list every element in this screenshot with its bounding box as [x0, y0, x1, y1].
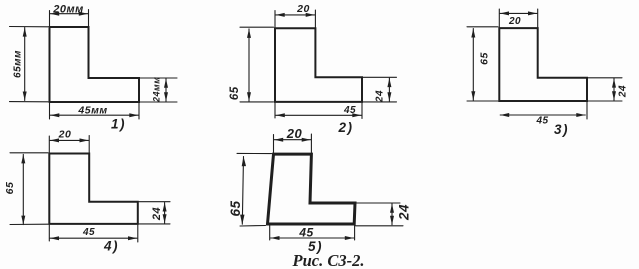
svg-text:24: 24 [375, 90, 386, 103]
svg-text:24: 24 [151, 207, 163, 221]
fig3 dimension 20 extension lines [499, 9, 537, 27]
figure 1 L-shape outline [50, 27, 140, 102]
fig5 label 5) [308, 239, 323, 254]
fig2 dimension 24 line [387, 78, 391, 101]
fig3 dimension 24 line [612, 79, 616, 101]
svg-text:4): 4) [103, 239, 119, 254]
fig2 dimension 20 extension lines [275, 10, 315, 27]
fig3 dimension 20 label [508, 16, 521, 27]
fig4 dimension 65 line [21, 154, 25, 224]
fig4 label 4) [103, 239, 119, 254]
fig2 dimension 45 extension lines [275, 103, 362, 119]
fig3 dimension 20 line [500, 11, 537, 15]
svg-text:Рис. С3-2.: Рис. С3-2. [292, 251, 365, 269]
fig5 dimension 20 extension lines [274, 134, 312, 153]
svg-text:20: 20 [58, 129, 72, 141]
svg-text:24: 24 [397, 204, 412, 221]
caption Рис. С3-2. [292, 251, 365, 269]
fig5 dimension 24 line [390, 204, 394, 225]
figure 5 L-shape outline (bold) [268, 154, 356, 224]
figure 2 L-shape outline [275, 28, 362, 102]
fig2 dimension 24 extension lines [363, 77, 397, 102]
fig3 dimension 65 label [479, 52, 491, 65]
fig4 dimension 24 line [163, 203, 167, 224]
fig5 dimension 65 extension lines [237, 153, 272, 226]
fig5 dimension 65 line [240, 156, 246, 224]
fig3 dimension 45 extension lines [586, 102, 588, 119]
fig2 dimension 45 label [343, 105, 356, 116]
fig1 label 1) [111, 117, 126, 132]
figure 4 L-shape outline [49, 154, 138, 224]
fig1 dimension 24мм label [152, 77, 162, 103]
fig1 dimension 65мм label [13, 50, 24, 78]
fig5 dimension 45 extension lines [270, 226, 355, 241]
fig5 dimension 45 line [271, 236, 354, 240]
fig3 dimension 24 label [618, 85, 629, 98]
fig4 dimension 45 line [50, 236, 137, 240]
fig4 dimension 65 label [4, 182, 16, 195]
fig2 dimension 24 label [375, 90, 386, 103]
fig2 dimension 20 label [296, 3, 310, 15]
svg-text:24: 24 [618, 85, 629, 98]
fig4 dimension 65 extension lines [10, 153, 48, 225]
svg-text:2): 2) [337, 120, 353, 135]
svg-text:20: 20 [296, 3, 310, 15]
svg-text:1): 1) [111, 117, 126, 132]
svg-text:20мм: 20мм [52, 3, 84, 15]
svg-text:65мм: 65мм [13, 50, 24, 78]
figure 3 L-shape outline [499, 28, 587, 101]
fig3 dimension 24 extension lines [588, 78, 622, 101]
fig2 label 2) [337, 120, 353, 135]
fig1 dimension 65мм extension lines [10, 27, 49, 102]
svg-text:20: 20 [286, 126, 303, 141]
fig3 label 3) [554, 122, 569, 137]
fig4 dimension 20 extension lines [49, 136, 89, 153]
fig1 dimension 24мм extension lines [140, 78, 177, 102]
fig4 dimension 45 label [82, 227, 95, 238]
fig4 dimension 20 label [58, 129, 72, 141]
fig3 dimension 65 extension lines [467, 27, 498, 101]
fig2 dimension 65 line [247, 29, 251, 101]
svg-text:45мм: 45мм [77, 105, 107, 117]
fig1 dimension 45мм label [77, 105, 107, 117]
fig1 dimension 20мм label [52, 3, 84, 15]
svg-text:3): 3) [554, 122, 569, 137]
fig1 dimension 45мм line [50, 113, 138, 117]
fig1 dimension 20мм extension lines [50, 10, 89, 27]
fig3 dimension 45 line [500, 113, 585, 117]
fig1 dimension 24мм line [164, 79, 168, 101]
fig2 dimension 65 label [229, 86, 241, 100]
fig2 dimension 20 line [276, 13, 315, 17]
fig4 dimension 45 extension lines [49, 225, 138, 242]
fig5 dimension 45 label [298, 226, 313, 240]
fig5 dimension 24 extension lines [356, 203, 404, 226]
fig4 dimension 20 line [50, 138, 89, 142]
fig5 dimension 20 line [274, 138, 311, 142]
svg-text:65: 65 [4, 182, 16, 195]
svg-text:65: 65 [479, 52, 491, 65]
svg-text:45: 45 [343, 105, 356, 116]
fig4 dimension 24 extension lines [139, 202, 170, 224]
fig2 dimension 45 line [276, 113, 362, 117]
svg-text:20: 20 [508, 16, 521, 27]
svg-text:65: 65 [229, 86, 241, 100]
svg-text:65: 65 [228, 200, 243, 216]
fig4 dimension 24 label [151, 207, 163, 221]
svg-text:24мм: 24мм [152, 77, 162, 103]
fig1 dimension 65мм line [23, 28, 27, 101]
fig1 dimension 20мм line [50, 12, 88, 16]
fig3 dimension 65 line [471, 29, 475, 101]
svg-text:45: 45 [535, 116, 548, 127]
svg-text:45: 45 [82, 227, 95, 238]
fig5 dimension 24 label [397, 204, 412, 221]
fig1 dimension 45мм extension lines [50, 103, 140, 119]
fig5 dimension 65 label [228, 200, 243, 216]
fig2 dimension 65 extension lines [240, 27, 274, 102]
svg-text:45: 45 [298, 226, 313, 240]
fig5 dimension 20 label [286, 126, 303, 141]
fig3 dimension 45 label [535, 116, 548, 127]
